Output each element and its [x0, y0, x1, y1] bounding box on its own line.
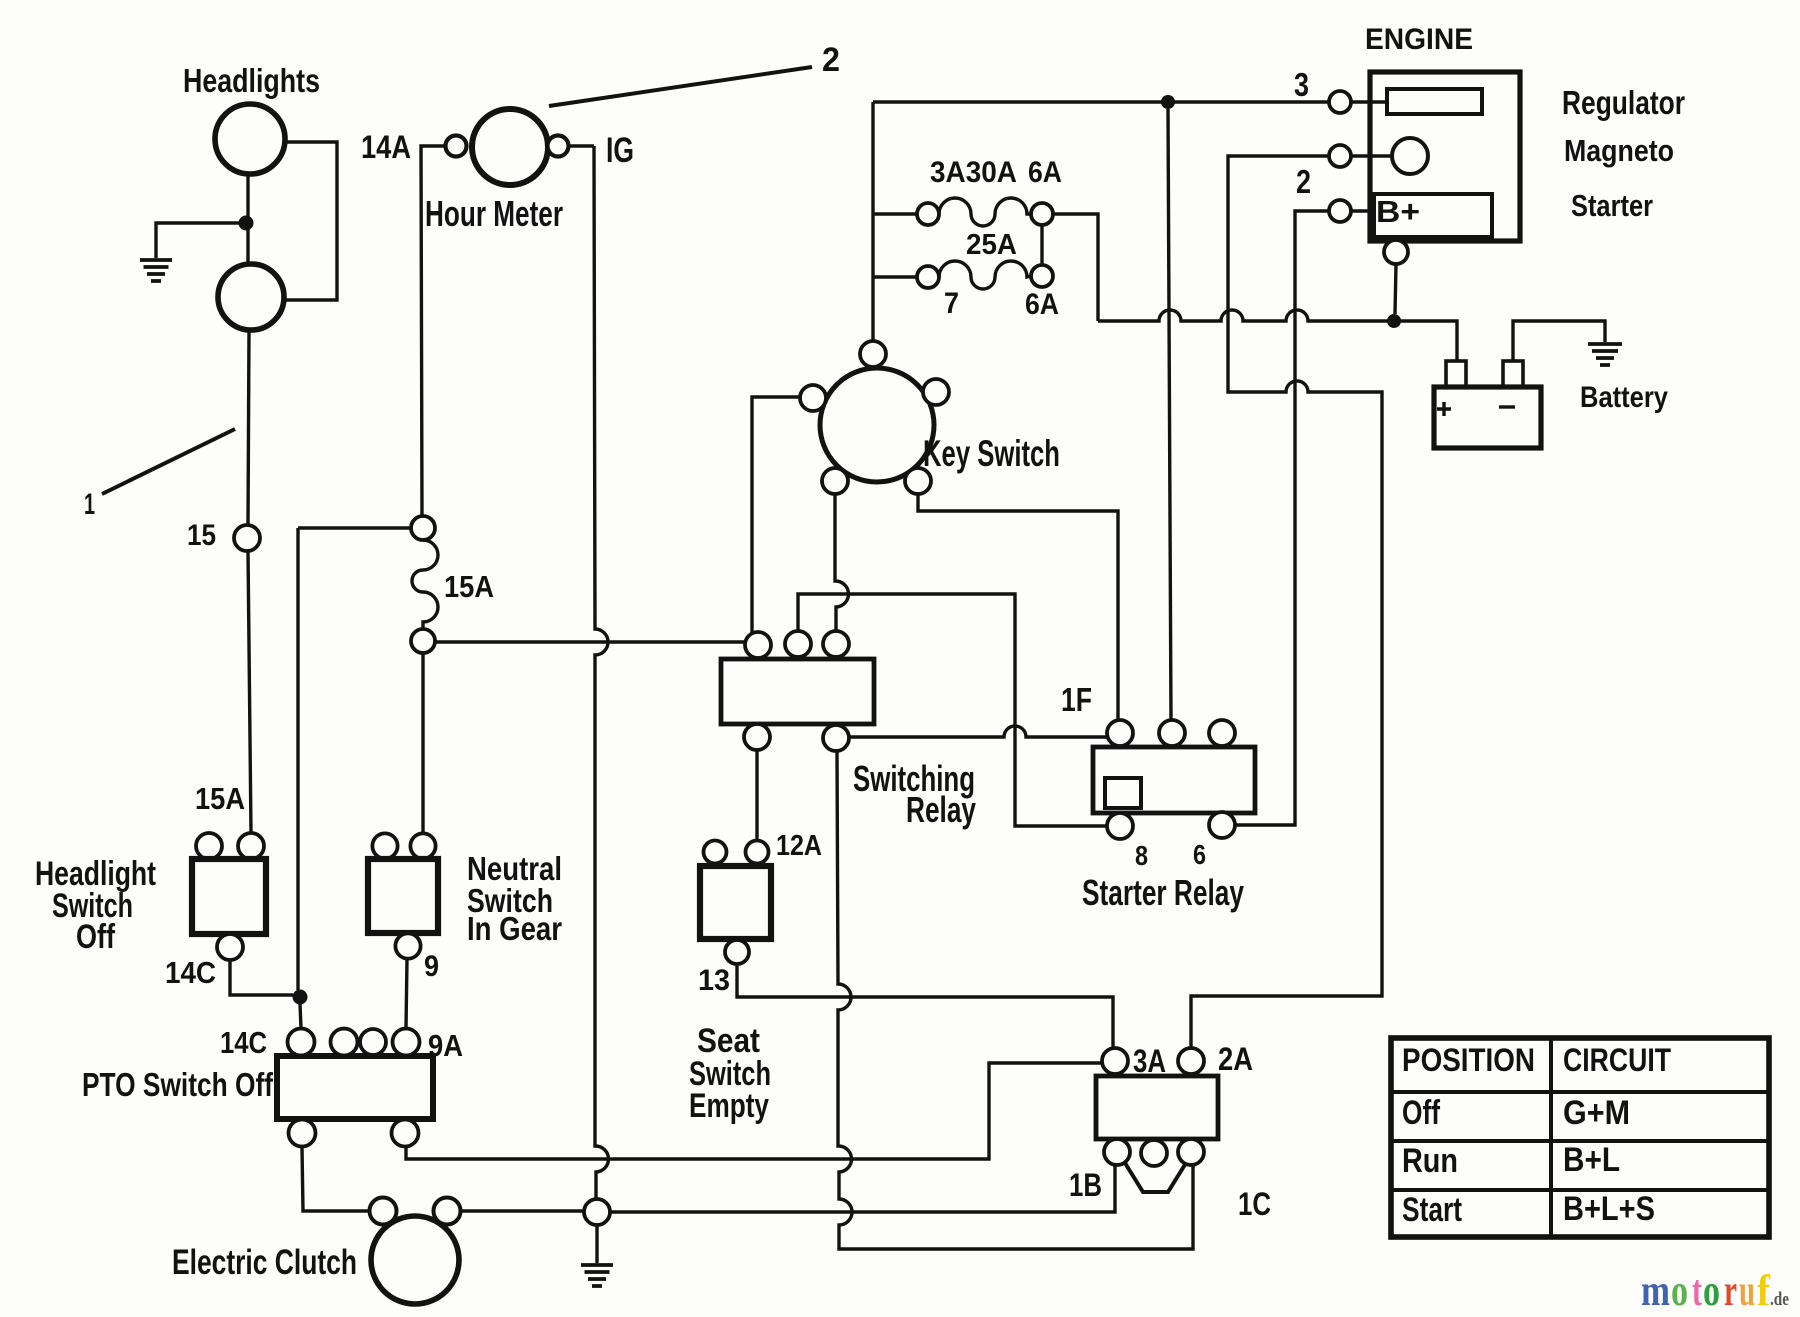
terminal hour meter IG [548, 136, 569, 157]
svg-text:In Gear: In Gear [467, 910, 562, 947]
terminal switching relay bottom 1 [744, 724, 770, 750]
svg-text:.de: .de [1770, 1289, 1789, 1310]
terminal clutch IG tap [584, 1199, 610, 1225]
wire stub engine pin3 [1351, 100, 1387, 103]
switching relay K1 body [721, 659, 874, 724]
wire relay coil to starter pin8 [798, 594, 1107, 826]
svg-text:6: 6 [1193, 839, 1206, 870]
wire 13 to interlock 3A [737, 965, 1113, 1048]
wire headlight bracket [284, 142, 337, 300]
terminal headlight switch pin 14C [217, 934, 243, 960]
wire junction to starter relay coil [1168, 109, 1171, 720]
svg-text:1C: 1C [1238, 1186, 1271, 1222]
interlock module K3 body [1096, 1076, 1218, 1139]
terminal starter relay top coil [1159, 720, 1185, 746]
wire battery negative [1513, 321, 1605, 361]
terminal neutral switch top 15A [410, 833, 435, 858]
svg-text:14A: 14A [361, 129, 411, 165]
svg-text:IG: IG [606, 131, 634, 170]
terminal PTO bottom 2 [392, 1120, 419, 1147]
ground headlights [140, 260, 172, 281]
terminal key switch upper-right [923, 379, 949, 405]
terminal starter relay top aux [1209, 720, 1235, 746]
svg-text:8: 8 [1135, 840, 1148, 871]
terminal PTO top 14C [288, 1029, 315, 1056]
battery BT1 terminal negative [1503, 361, 1523, 387]
svg-text:Regulator: Regulator [1562, 84, 1685, 121]
terminal fuse F2 right [1031, 203, 1053, 225]
starter relay K2 body [1093, 747, 1255, 813]
table key position/circuit [1391, 1038, 1769, 1237]
terminal seat switch pin 13 [725, 940, 749, 964]
terminal fuse F3 right [1031, 265, 1053, 287]
svg-text:Electric Clutch: Electric Clutch [172, 1243, 357, 1282]
hour meter M1 [472, 109, 548, 185]
terminal interlock 1B [1104, 1139, 1130, 1165]
svg-text:3A30A: 3A30A [930, 156, 1017, 189]
svg-text:o: o [1671, 1266, 1688, 1315]
battery plus mark [1437, 402, 1451, 416]
wire key feed vertical [871, 102, 874, 341]
terminal interlock mid [1141, 1140, 1167, 1166]
svg-text:15A: 15A [444, 569, 494, 604]
svg-text:r: r [1724, 1266, 1737, 1315]
wire stub engine pin2 [1351, 154, 1392, 157]
wire relay to seat switch 12A [755, 750, 758, 839]
engine unit box [1370, 72, 1520, 241]
junction bus starter-relay node [1161, 95, 1175, 109]
svg-text:Battery: Battery [1580, 381, 1668, 414]
svg-text:2: 2 [1296, 163, 1311, 200]
fuse F2 3A/30A/6A element [939, 198, 1031, 226]
battery BT1 terminal positive [1446, 361, 1466, 387]
terminal PTO top 9A [393, 1029, 420, 1056]
wire fuse F2 out [1053, 214, 1098, 321]
svg-text:B+L: B+L [1563, 1141, 1620, 1179]
terminal PTO top 3 [360, 1029, 386, 1055]
svg-text:2A: 2A [1218, 1041, 1253, 1077]
terminal neutral switch top A [372, 833, 397, 858]
svg-text:6A: 6A [1025, 288, 1059, 321]
terminal fuse F3 left [917, 266, 939, 288]
wire fuse 15A to neutral switch [421, 653, 424, 834]
svg-text:12A: 12A [776, 830, 822, 862]
svg-text:9A: 9A [428, 1028, 463, 1063]
terminal headlight switch pin 15A [238, 833, 264, 859]
svg-text:14C: 14C [220, 1025, 267, 1060]
svg-text:1B: 1B [1069, 1167, 1102, 1203]
wire relay to interlock 1C [837, 751, 1193, 1249]
svg-text:ENGINE: ENGINE [1365, 23, 1473, 56]
starter relay inner contact square [1105, 778, 1141, 808]
svg-text:m: m [1641, 1266, 1670, 1315]
svg-text:14C: 14C [165, 955, 216, 990]
svg-text:CIRCUIT: CIRCUIT [1563, 1042, 1671, 1078]
svg-text:Headlights: Headlights [183, 62, 320, 99]
svg-text:o: o [1703, 1266, 1720, 1315]
terminal connector 15 [234, 525, 260, 551]
wire hour meter IG lead [569, 144, 594, 147]
terminal key switch lower-left [822, 468, 848, 494]
wire 14C to junction [230, 960, 293, 995]
terminal seat switch top 12A [746, 841, 769, 864]
terminal clutch right [434, 1198, 461, 1225]
svg-text:Starter Relay: Starter Relay [1082, 872, 1244, 913]
lamp headlight bottom L2 [218, 264, 284, 330]
svg-text:PTO Switch Off: PTO Switch Off [82, 1066, 274, 1103]
junction 14C node [293, 990, 308, 1005]
terminal interlock 1C [1178, 1139, 1204, 1165]
svg-text:13: 13 [698, 964, 730, 997]
headlight switch S3 body [192, 859, 266, 934]
electric clutch M2 [371, 1216, 459, 1304]
wire stub to fuse 25A [873, 275, 917, 278]
svg-text:1F: 1F [1061, 681, 1092, 718]
wire 15 to headlight switch [248, 551, 251, 833]
svg-text:6A: 6A [1028, 156, 1062, 189]
engine regulator block [1387, 89, 1482, 114]
wire hour meter 14A lead [421, 146, 445, 516]
wire starter terminal to junction [1395, 264, 1396, 314]
svg-text:Start: Start [1402, 1191, 1462, 1229]
wire interlock 1B-1C link [1125, 1163, 1186, 1192]
callout 2 line [549, 67, 812, 106]
wire headlight to connector 15 [248, 330, 249, 525]
wire headlight link [246, 174, 249, 264]
svg-text:Key Switch: Key Switch [923, 433, 1060, 474]
terminal starter relay top 1F [1107, 720, 1133, 746]
fuse F1 15A element [412, 540, 438, 629]
terminal starter relay pin 6 [1209, 812, 1235, 838]
logo motoruf.de [1641, 1266, 1789, 1315]
svg-text:3: 3 [1294, 66, 1309, 103]
ground battery [1588, 344, 1622, 365]
wire bus engine 3 [873, 100, 1329, 103]
wire ground stub headlights [156, 223, 246, 258]
svg-text:u: u [1739, 1266, 1755, 1315]
terminal switching relay top 3 [823, 631, 849, 657]
callout 1 line [102, 429, 235, 494]
svg-text:B+L+S: B+L+S [1563, 1190, 1655, 1228]
terminal headlight switch pin A [196, 833, 222, 859]
wire engine B+ to starter relay 6 [1235, 211, 1329, 825]
terminal engine pin B+ [1329, 200, 1351, 222]
wire IG line [594, 146, 608, 1199]
wire PTO to clutch [302, 1147, 369, 1211]
svg-text:7: 7 [944, 287, 959, 320]
svg-text:9: 9 [424, 950, 439, 983]
terminal clutch left [370, 1198, 397, 1225]
svg-text:Empty: Empty [689, 1087, 769, 1125]
wire 9 to PTO [406, 959, 407, 1028]
wire key upper-left [752, 397, 800, 633]
svg-text:Run: Run [1402, 1142, 1458, 1180]
terminal PTO top 2 [331, 1029, 358, 1056]
svg-text:POSITION: POSITION [1402, 1042, 1535, 1078]
wire clutch to interlock 1B [461, 1166, 1115, 1212]
terminal fuse F2 left [917, 203, 939, 225]
terminal key switch upper-left [800, 385, 826, 411]
svg-text:25A: 25A [966, 229, 1017, 261]
wire fuse 15A out to switching relay [435, 640, 745, 643]
junction battery positive node [1387, 314, 1401, 328]
wire junction to PTO pin [300, 1004, 301, 1028]
svg-text:B+: B+ [1376, 194, 1420, 229]
battery minus mark [1499, 405, 1515, 408]
terminal switching relay top 2 [785, 631, 811, 657]
svg-text:15: 15 [187, 519, 216, 552]
wire PTO to interlock 3A feed [406, 1063, 1102, 1159]
terminal engine pin 3 [1329, 91, 1351, 113]
wire stub engine B+ [1351, 209, 1374, 212]
svg-text:G+M: G+M [1563, 1094, 1630, 1132]
lamp headlight top L1 [215, 104, 285, 174]
wire fuse outputs link [1040, 225, 1043, 265]
neutral switch S4 body [368, 859, 438, 933]
svg-text:2: 2 [822, 41, 840, 79]
terminal starter relay pin 8 [1107, 813, 1133, 839]
wire key lower-right 1F [918, 494, 1118, 720]
key switch S1 [820, 368, 934, 482]
terminal neutral switch pin 9 [395, 933, 420, 958]
svg-text:Relay: Relay [906, 789, 976, 830]
wire engine pin2 to interlock 2A [1191, 156, 1382, 1048]
svg-text:3A: 3A [1133, 1043, 1166, 1079]
terminal engine starter [1384, 240, 1408, 264]
terminal engine pin 2 [1329, 145, 1351, 167]
svg-text:15A: 15A [195, 781, 245, 816]
fuse F3 25A element [939, 261, 1031, 289]
terminal fuse 15A top [411, 516, 435, 540]
ground IG line [581, 1265, 613, 1286]
seat switch S2 body [700, 866, 771, 939]
wire 15A feed down to junction [296, 528, 299, 990]
wire relay out to starter 1F pin [849, 726, 1108, 737]
svg-text:Off: Off [1402, 1094, 1441, 1132]
engine magneto circle [1392, 138, 1428, 174]
svg-text:Off: Off [76, 918, 116, 956]
wire 15 bus to fuse 15A [298, 526, 411, 529]
terminal interlock 3A [1102, 1048, 1128, 1074]
svg-text:Starter: Starter [1571, 188, 1653, 223]
engine starter block B+ [1374, 194, 1492, 237]
terminal seat switch top A [704, 841, 727, 864]
svg-text:t: t [1692, 1266, 1702, 1315]
junction headlight ground node [239, 216, 254, 231]
terminal key switch lower-right [905, 468, 931, 494]
battery BT1 body [1434, 387, 1541, 448]
terminal interlock 2A [1178, 1048, 1204, 1074]
svg-text:Magneto: Magneto [1564, 133, 1674, 168]
terminal switching relay bottom 2 [823, 725, 849, 751]
wire bus 321 [1098, 310, 1457, 361]
wire stub to fuse 3A [873, 212, 917, 215]
wire IG tap to ground [595, 1225, 598, 1263]
terminal key switch top [860, 341, 886, 367]
terminal hour meter 14A [446, 136, 467, 157]
svg-text:Hour Meter: Hour Meter [425, 193, 563, 234]
terminal PTO bottom 1 [289, 1120, 316, 1147]
svg-text:1: 1 [84, 488, 95, 521]
terminal fuse 15A bottom [411, 629, 435, 653]
wire key lower-left to relay [835, 494, 848, 631]
terminal switching relay top 1 [745, 632, 771, 658]
